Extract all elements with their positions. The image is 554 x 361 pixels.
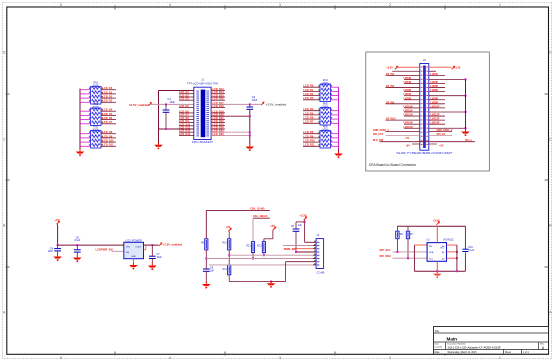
resistor R6 (396, 231, 404, 239)
svg-text:LCD_R1: LCD_R1 (304, 89, 314, 92)
svg-text:J1: J1 (201, 78, 204, 82)
svg-text:LVD10P: LVD10P (431, 105, 440, 108)
svg-text:LCD_R8: LCD_R8 (304, 131, 314, 134)
svg-text:LCD_R4: LCD_R4 (304, 108, 314, 111)
svg-text:3: 3 (279, 356, 281, 360)
wire SPI_SCL (393, 251, 428, 253)
wire RN5 left pin 1 (303, 110, 320, 112)
svg-text:Main: Main (447, 337, 458, 342)
svg-text:10uF: 10uF (170, 101, 176, 104)
wire top row to J1 pin1 (159, 90, 194, 92)
wire J2 left pin row 3 (386, 74, 420, 76)
svg-text:LVD14P: LVD14P (431, 122, 440, 125)
wire C9 bottom (295, 231, 297, 252)
junction C2 bus row3 (249, 134, 251, 136)
svg-text:LVD7N: LVD7N (404, 93, 412, 96)
svg-text:LCD_R7: LCD_R7 (304, 121, 314, 124)
svg-text:10uF: 10uF (48, 251, 54, 253)
connector J3 CO-8B (316, 233, 325, 275)
wire J2 right pin row 3 (429, 74, 445, 76)
capacitor C7 (149, 245, 162, 263)
wire RN6 right pin 3 (331, 141, 339, 143)
wire RN5 left pin 2 (303, 114, 320, 116)
wire RN3 left pin 3 (80, 141, 91, 143)
svg-text:LCD_POWER: LCD_POWER (125, 238, 142, 242)
svg-text:LCD_D5: LCD_D5 (103, 113, 113, 116)
svg-text:LVD12N: LVD12N (404, 114, 413, 117)
wire J2 right pin row 8 (429, 95, 466, 97)
wire WP row (414, 244, 427, 246)
junction R13 (263, 254, 265, 256)
wire J3 pin 4 (296, 251, 313, 253)
wire BL long row (380, 141, 475, 143)
svg-text:5: 5 (60, 356, 62, 360)
junction SPI_SCL R6 (396, 251, 398, 253)
junction C2 bus row2 (249, 131, 251, 133)
wire RN6 right pin 2 (331, 137, 339, 139)
wire right bus drop (338, 150, 340, 152)
junction C4 (57, 244, 59, 246)
svg-text:8P4R: 8P4R (323, 106, 329, 108)
ground C4 (53, 254, 62, 261)
wire J1 right pin row 10 (211, 122, 225, 124)
wire J1 left pin row 13 (179, 131, 194, 133)
svg-text:LCD_D7: LCD_D7 (103, 121, 113, 124)
wire WP drop (413, 245, 415, 271)
svg-text:1uF: 1uF (210, 270, 215, 272)
wire R10 to R11 (228, 250, 230, 265)
zone tick marks top (114, 6, 116, 10)
wire +3.3V_enabled long row (211, 103, 260, 105)
svg-text:LCD_D1: LCD_D1 (103, 91, 113, 94)
wire J1 right pin row 11 (211, 125, 225, 127)
svg-text:LCD_D2: LCD_D2 (103, 96, 113, 99)
svg-text:CKL_BEA4: CKL_BEA4 (253, 214, 268, 218)
wire J1 right pin row 8 (211, 115, 225, 117)
wire RN4 right pin 1 (331, 86, 339, 88)
wire J3 pin 1 (305, 241, 313, 243)
svg-text:2: 2 (389, 356, 391, 360)
wire RN3 right pin 4 (101, 145, 116, 147)
wire J1 left pin row 10 (179, 122, 194, 124)
junction bottom rail (436, 270, 438, 272)
resistor R13 (257, 242, 265, 253)
ground C5 (73, 255, 82, 262)
wire J2 right pin row 9 (429, 99, 445, 101)
wire CKL row (253, 217, 270, 219)
svg-text:PWM_EN: PWM_EN (284, 247, 296, 251)
wire J3 pin stub 3 (313, 248, 316, 250)
svg-text:LVD9P: LVD9P (431, 101, 439, 104)
svg-text:VOUT: VOUT (135, 247, 142, 249)
svg-text:LVD12P: LVD12P (431, 114, 440, 117)
wire RN2 right pin 1 (101, 110, 116, 112)
svg-text:SQ-LCD-LCD-Adapter-LT-A050-A32: SQ-LCD-LCD-Adapter-LT-A050-A323F (448, 346, 502, 350)
svg-text:2: 2 (389, 3, 391, 7)
svg-text:CHL_B-W1: CHL_B-W1 (250, 206, 265, 210)
wire RN3 left pin 4 (80, 145, 91, 147)
junction C9 row (295, 251, 297, 253)
wire J2 right pin row 16 (429, 127, 466, 129)
svg-text:BL(+): BL(+) (465, 139, 471, 142)
wire RN6 left pin 1 (303, 133, 320, 135)
svg-text:LCD_D5: LCD_D5 (179, 105, 189, 108)
svg-text:EN: EN (126, 252, 129, 254)
svg-text:Sheet: Sheet (505, 351, 511, 354)
svg-text:SPI_CXT: SPI_CXT (373, 133, 384, 136)
svg-text:+3.3V: +3.3V (386, 67, 393, 70)
wire J2 right pin row 5 (429, 82, 445, 84)
svg-text:GND_PAD1_2: GND_PAD1_2 (437, 129, 453, 132)
svg-text:LCD_R11: LCD_R11 (304, 144, 316, 147)
junction SPI_SDA R7 (407, 257, 409, 259)
svg-text:8P4R: 8P4R (93, 129, 99, 131)
svg-text:GND_PAD3_4: GND_PAD3_4 (373, 129, 389, 132)
junction R12 (252, 258, 254, 260)
resistor R12 (246, 242, 254, 253)
wire J1 right pin row 13 (211, 131, 225, 133)
svg-text:CO-8B: CO-8B (317, 271, 325, 274)
wire RN2 right pin 4 (101, 123, 116, 125)
svg-text:LCDPWR_EN: LCDPWR_EN (96, 248, 113, 252)
wire J3 pin stub 1 (313, 241, 316, 243)
wire A2 row (447, 257, 457, 259)
svg-text:+3.3V_enabled: +3.3V_enabled (265, 103, 286, 107)
svg-text:+3.3V: +3.3V (454, 67, 461, 70)
svg-text:C10: C10 (468, 246, 473, 249)
svg-text:R13: R13 (257, 244, 262, 247)
wire U2 gnd pin (132, 259, 134, 263)
svg-text:LVD10N: LVD10N (404, 105, 413, 108)
wire J3 pin7 route down (285, 262, 287, 282)
resistor R7 (406, 231, 414, 239)
wire SPI row left (386, 135, 420, 137)
wire J1 right pin row 6 (211, 107, 225, 109)
wire J1 left pin row 14 (179, 134, 194, 136)
wire R10 top (228, 231, 230, 239)
svg-text:DF_IN5: DF_IN5 (386, 85, 395, 88)
svg-text:R11: R11 (223, 268, 228, 271)
wire J1 right pin row 2 (211, 93, 225, 95)
svg-text:GND: GND (131, 256, 136, 258)
power port +3.3V mid (304, 217, 308, 220)
svg-text:BLK_PW: BLK_PW (373, 139, 384, 142)
wire J1 left pin row 9 (179, 118, 194, 120)
wire RN3 right pin 2 (101, 137, 116, 139)
ground eeprom (433, 271, 442, 278)
wire A-pins gnd drop (456, 245, 458, 271)
wire R11 bottom route (228, 275, 230, 282)
wire RN5 right pin 2 (331, 114, 339, 116)
wire J2 left pin row 2 (392, 70, 420, 72)
wire J1 right pin row 9 (211, 118, 225, 120)
wire +3.3V mid drop (304, 220, 306, 242)
svg-text:File: File (435, 329, 440, 333)
wire RN6 left pin 2 (303, 137, 320, 139)
wire C2 gnd bus (249, 109, 251, 145)
power port 10.5V_enabled (149, 102, 153, 105)
wire RN1 left pin 3 (80, 97, 91, 99)
wire CHL top row (206, 209, 269, 211)
wire +5V stub right (429, 143, 437, 145)
wire eeprom top rail (397, 225, 465, 227)
svg-text:SDA: SDA (429, 251, 434, 254)
wire CKL drop (252, 218, 254, 241)
wire GND_PAD left row (386, 131, 420, 133)
wire J3 pin stub 2 (313, 245, 316, 247)
resistor R11 (223, 265, 231, 275)
svg-text:DF_IN13: DF_IN13 (386, 118, 396, 121)
wire J2 right pin row 14 (429, 119, 445, 121)
wire RN5 right pin 4 (331, 122, 339, 124)
wire J2 left pin row 5 (404, 82, 420, 84)
svg-text:Date:: Date: (435, 351, 441, 354)
svg-text:LCD_R5: LCD_R5 (304, 112, 314, 115)
svg-text:+5V: +5V (270, 224, 275, 228)
svg-text:LVD6N: LVD6N (404, 89, 412, 92)
resistor network RN6 (320, 126, 331, 148)
wire SPI row right (429, 135, 452, 137)
ground right group (334, 151, 343, 158)
resistor network RN5 (320, 103, 331, 125)
svg-text:LVD8N: LVD8N (404, 97, 412, 100)
svg-text:LVD2P: LVD2P (431, 73, 439, 76)
wire J2 left pin row 15 (404, 123, 420, 125)
junction R9 net (205, 258, 207, 260)
resistor R9 (201, 239, 208, 250)
wire J1 row 14 long (211, 134, 250, 136)
svg-text:LCD_R6: LCD_R6 (304, 117, 314, 120)
wire SPI_SDA (393, 257, 428, 259)
wire RN2 right pin 2 (101, 114, 116, 116)
capacitor C1 (163, 97, 176, 129)
svg-text:LCD_D10: LCD_D10 (103, 140, 115, 143)
svg-text:+5V: +5V (439, 145, 444, 148)
svg-text:LVD3N: LVD3N (404, 77, 412, 80)
wire RN1 right pin 1 (101, 89, 116, 91)
svg-text:R12: R12 (246, 244, 251, 247)
wire RN6 left pin 3 (303, 141, 320, 143)
wire J2 right gnd rail (465, 79, 467, 129)
junction C5 (76, 244, 78, 246)
wire RN2 right pin 3 (101, 119, 116, 121)
wire RN4 left pin 4 (303, 99, 320, 101)
wire J2 right pin row 2 (429, 70, 436, 72)
wire RN4 left pin 3 (303, 95, 320, 97)
wire J2 left pin row 7 (404, 91, 420, 93)
wire J2 pin1 left (396, 66, 420, 68)
svg-text:+5V: +5V (406, 145, 411, 148)
wire J2 left pin row 4 (404, 78, 420, 80)
svg-text:LCD_D18: LCD_D18 (213, 105, 225, 108)
wire J1 row 12 long (211, 131, 250, 133)
wire RN3 right pin 1 (101, 133, 116, 135)
wire J2 right pin row 13 (429, 115, 445, 117)
junction +3.3V mid (304, 221, 306, 223)
svg-text:AT24C02: AT24C02 (443, 239, 454, 242)
wire J3 pin 7 (286, 261, 314, 263)
wire J3 pin 5 (229, 254, 313, 256)
wire U1 GND (436, 261, 438, 271)
wire R7 bottom (407, 239, 409, 259)
wire RN1 left pin 4 (80, 101, 91, 103)
power port +3.3V DFA right (452, 66, 456, 69)
junction A1 rail (456, 251, 458, 253)
wire J2 left pin row 16 (404, 127, 420, 129)
ground mid (267, 281, 276, 288)
svg-text:8P4R: 8P4R (323, 129, 329, 131)
wire RN2 left pin 2 (80, 114, 91, 116)
title block frame (434, 327, 549, 355)
svg-text:LVD4N: LVD4N (404, 81, 412, 84)
svg-text:TFT-LCD-50P-ASSY PIN: TFT-LCD-50P-ASSY PIN (187, 82, 218, 85)
wire RN2 left pin 1 (80, 110, 91, 112)
wire R9 top drop (205, 211, 207, 239)
wire J3 pin 6 (206, 258, 313, 260)
wire RN5 right pin 3 (331, 118, 339, 120)
wire GND_PAD right row (429, 131, 452, 133)
wire J1 right pin row 7 (211, 112, 225, 114)
zone tick marks right (545, 93, 549, 95)
svg-text:4: 4 (169, 3, 171, 7)
wire RN6 right pin 1 (331, 133, 339, 135)
svg-text:5: 5 (60, 3, 62, 7)
wire J3 pin 3 (295, 248, 314, 250)
svg-text:R10: R10 (222, 242, 227, 245)
wire A1 row (447, 251, 457, 253)
wire R12 bottom (252, 253, 254, 259)
wire J3 pin stub 4 (313, 251, 316, 253)
ground DFA right (461, 129, 470, 136)
wire U1 VCC (436, 226, 438, 242)
ground C8 (202, 282, 211, 289)
wire J2 right pin row 12 (429, 111, 466, 113)
power port +3.3V DFA left (395, 66, 399, 69)
wire J1 right pin row 3 (211, 96, 225, 98)
junction A2 rail (456, 257, 458, 259)
svg-text:LVD5P: LVD5P (431, 85, 439, 88)
ground C7 (148, 263, 157, 270)
svg-text:+3.3V_enabled: +3.3V_enabled (163, 243, 183, 247)
power port +5V mid1 (228, 228, 232, 231)
wire J1 left pin row 11 (179, 125, 194, 127)
wire A0 row (447, 244, 457, 246)
svg-text:LVD6P: LVD6P (431, 89, 439, 92)
power port +5V regulator (57, 221, 61, 224)
svg-text:LVD15N: LVD15N (404, 126, 413, 129)
wire J2 right pin row 4 (429, 78, 466, 80)
wire J2 right pin row 15 (429, 123, 445, 125)
wire C10 vertical (464, 226, 466, 249)
resistor network RN4 (320, 79, 331, 101)
svg-text:LVD8P: LVD8P (431, 97, 439, 100)
zone tick marks bottom (114, 352, 116, 356)
resistor R10 (222, 239, 230, 250)
wire J2 right pin row 6 (429, 87, 445, 89)
wire RN5 left pin 3 (303, 118, 320, 120)
svg-text:10uF: 10uF (157, 257, 163, 259)
wire J1 left pin row 6 (179, 107, 194, 109)
wire RN4 right pin 3 (331, 95, 339, 97)
wire J3 pin stub 6 (313, 258, 316, 260)
wire RN4 left pin 1 (303, 86, 320, 88)
voltage regulator U2 (124, 238, 144, 258)
DFA block outline (366, 52, 490, 171)
svg-text:LVD4P: LVD4P (431, 81, 439, 84)
wire RN3 right pin 3 (101, 141, 116, 143)
ground left group (76, 149, 85, 156)
wire gnd rail left of J1 (158, 91, 160, 143)
junction C2 bus row1 (249, 115, 251, 117)
wire RN5 right pin 1 (331, 110, 339, 112)
wire gnd row to J1 (159, 128, 194, 130)
svg-text:LVD11N: LVD11N (404, 109, 413, 112)
wire +5V drop (57, 224, 59, 245)
wire RN1 left pin 1 (80, 89, 91, 91)
svg-text:VIN: VIN (126, 247, 130, 249)
wire J1 right pin row 1 (211, 90, 225, 92)
wire J1 left pin row 2 (179, 93, 194, 95)
svg-text:LVD14N: LVD14N (404, 122, 413, 125)
wire J2 left pin row 14 (386, 119, 420, 121)
wire J2 left pin row 11 (404, 107, 420, 109)
junction C1 top (165, 103, 167, 105)
junction C7 (151, 244, 153, 246)
wire RN2 left pin 4 (80, 123, 91, 125)
wire J3 pin stub 8 (313, 264, 316, 266)
svg-text:1: 1 (499, 356, 501, 360)
svg-text:1uF: 1uF (298, 225, 303, 227)
wire regulator input row (58, 244, 124, 246)
capacitor C4 (48, 245, 61, 254)
wire J2 left pin row 10 (386, 103, 420, 105)
ground left of J1 (154, 143, 163, 150)
svg-text:LCD_R0: LCD_R0 (304, 85, 314, 88)
zone tick marks left (6, 93, 10, 95)
wire RN4 right pin 4 (331, 99, 339, 101)
svg-text:SLIM-TYPE30-B2B-CONN-SMT: SLIM-TYPE30-B2B-CONN-SMT (396, 151, 452, 155)
resistor network RN2 (91, 103, 102, 125)
svg-text:DFA Board-to-Board Connector: DFA Board-to-Board Connector (369, 163, 417, 167)
wire RN3 left pin 1 (80, 133, 91, 135)
power port +3.3V_enabled (261, 102, 265, 105)
svg-text:LCD_D6: LCD_D6 (103, 117, 113, 120)
wire J1 right pin row 5 (211, 103, 225, 105)
svg-text:DF_IN2: DF_IN2 (386, 73, 395, 76)
svg-text:LCD_D8: LCD_D8 (103, 131, 113, 134)
wire U2 output pin2 link (145, 245, 147, 250)
wire J1 right pin row 14 (211, 134, 225, 136)
resistor network RN1 (91, 82, 102, 104)
svg-text:3: 3 (279, 3, 281, 7)
svg-text:0.1uF: 0.1uF (468, 250, 474, 252)
wire J2 left pin row 13 (404, 115, 420, 117)
svg-text:LCD_D13: LCD_D13 (179, 133, 191, 136)
svg-text:LCD_D11: LCD_D11 (103, 144, 115, 147)
svg-text:DF_IN9: DF_IN9 (386, 101, 395, 104)
svg-text:LCD_D0: LCD_D0 (103, 87, 113, 90)
svg-text:LCD_D4: LCD_D4 (103, 109, 113, 112)
svg-text:10.5V_enabled: 10.5V_enabled (129, 103, 149, 107)
svg-text:Wednesday, March 11, 2015: Wednesday, March 11, 2015 (448, 351, 478, 354)
wire J3 pin 8 (209, 264, 313, 266)
connector J1 FPC-50 (187, 78, 218, 144)
wire RN2 left pin 3 (80, 119, 91, 121)
svg-text:1: 1 (499, 3, 501, 7)
wire left group ground bus (79, 89, 81, 150)
wire RN4 right pin 2 (331, 90, 339, 92)
wire R13 top route (263, 239, 265, 242)
